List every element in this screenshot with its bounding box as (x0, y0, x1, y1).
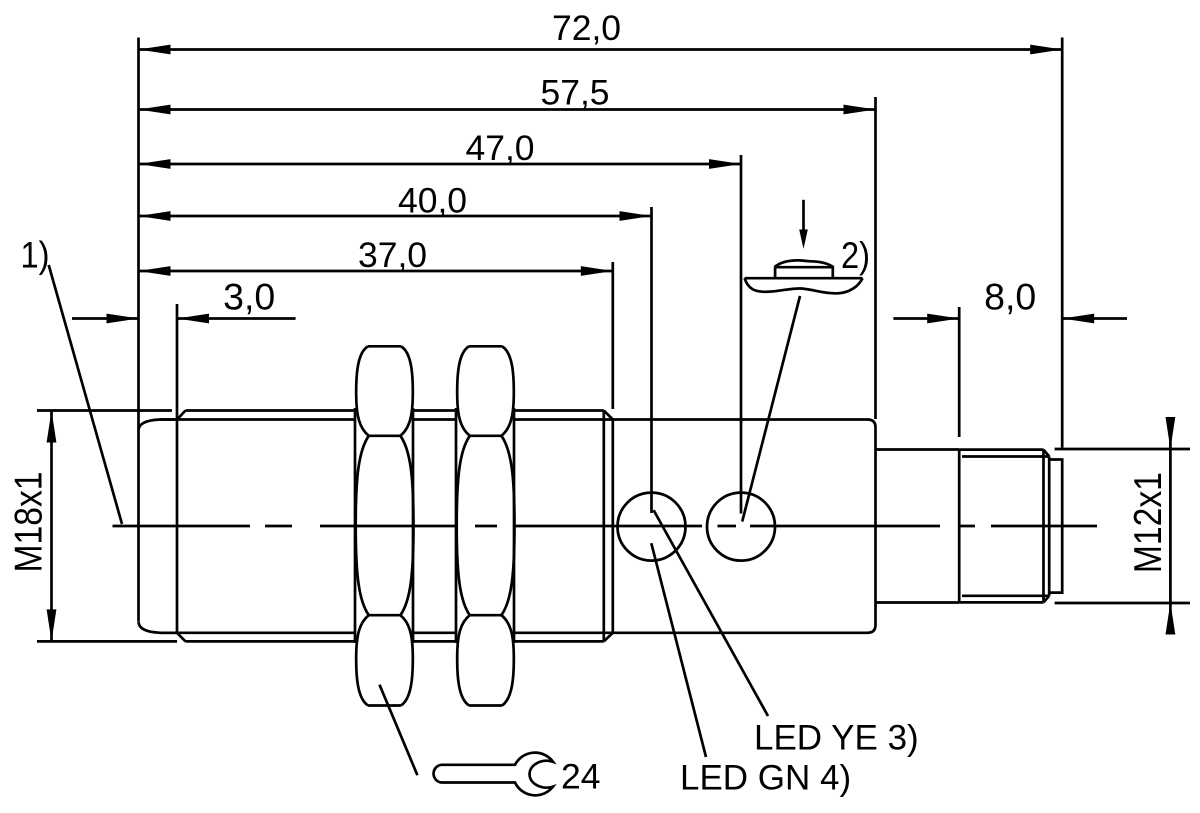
thread minor / housing top outline (160, 418, 355, 421)
extension line y=641 (M18 bottom) (37, 640, 177, 643)
M12 thread minor lines (962, 455, 1049, 458)
extension line x=1062.2 (right end) (1061, 38, 1064, 448)
hex nut 2 (456, 346, 515, 705)
arrowheads dimension 37,0 (139, 266, 171, 276)
leader LED YE (654, 510, 768, 716)
extension line x=651.5 (40.0 to LED GN circle) (650, 207, 653, 513)
svg-text:2): 2) (841, 235, 870, 276)
svg-text:8,0: 8,0 (984, 276, 1036, 318)
arrowheads dimension M18x1 (47, 411, 57, 443)
sensor tip face and chamfers (139, 411, 186, 431)
arrowheads dimension 8,0 (927, 314, 959, 324)
svg-text:47,0: 47,0 (465, 128, 534, 168)
extension line x=177 (3.0 / thread start) (176, 304, 179, 633)
extension line y=449 (M12 top) (1055, 448, 1190, 451)
LED YE window circle (707, 493, 775, 561)
LED GN window circle (618, 493, 686, 561)
svg-text:3,0: 3,0 (223, 276, 275, 318)
wrench symbol (434, 753, 553, 796)
leader 1) to sensing face (49, 265, 122, 524)
connector neck (876, 448, 960, 451)
extension line x=741 (47.0 to LED YE circle) (740, 155, 743, 514)
centerline (113, 525, 1098, 528)
thread end vertical (602, 411, 605, 642)
arrowheads dimension 57,5 (139, 105, 171, 115)
dimension line 47,0 (139, 163, 742, 166)
actuation target symbol: plate (745, 277, 863, 280)
leader wrench 24 (380, 685, 418, 776)
dimension line 37,0 (139, 270, 613, 273)
svg-text:72,0: 72,0 (552, 8, 621, 48)
svg-text:24: 24 (561, 757, 601, 797)
thread major diameter lines (186, 409, 356, 412)
dimension line 40,0 (139, 215, 652, 218)
connector tip (1049, 460, 1062, 593)
leader 2) target to LED YE circle (742, 296, 800, 522)
dimension line 72,0 (139, 48, 1063, 51)
extension line x=612.8 (37.0) (611, 262, 614, 409)
arrowheads dimension M12x1 (1166, 417, 1176, 449)
M12 thread outline (958, 450, 961, 603)
actuation target symbol: down arrow (802, 200, 805, 232)
hex nut 1 (355, 346, 414, 705)
extension line x=959.2 (8.0 left) (958, 307, 961, 437)
housing front vertical (611, 420, 614, 633)
leader LED GN (651, 543, 706, 757)
svg-text:LED YE 3): LED YE 3) (754, 719, 919, 758)
dimension line 57,5 (139, 108, 876, 111)
extension line x=875.5 (57.5) (874, 97, 877, 419)
arrowheads dimension 47,0 (139, 159, 171, 169)
arrowhead target down arrow (799, 230, 808, 249)
svg-text:LED GN 4): LED GN 4) (680, 759, 851, 798)
svg-text:57,5: 57,5 (540, 73, 609, 113)
svg-text:1): 1) (21, 235, 50, 276)
arrowheads dimension 40,0 (139, 211, 171, 221)
extension line y=602 (M12 bottom) (1055, 602, 1190, 605)
housing right rounded end (868, 420, 876, 633)
thread end chamfers (604, 411, 613, 420)
svg-text:M12x1: M12x1 (1127, 472, 1170, 573)
arrowheads dimension 72,0 (139, 45, 171, 55)
dimension line M18x1 (50, 411, 53, 642)
svg-text:M18x1: M18x1 (8, 472, 51, 573)
arrowheads dimension 3,0 (107, 314, 139, 324)
dimension line 3,0 (outside tails) (72, 317, 139, 320)
svg-text:37,0: 37,0 (358, 235, 427, 275)
extension line x=138.5 (sensing face datum) (137, 38, 140, 622)
dimension line 8,0 (outside tails) (893, 317, 959, 320)
dimension line M12x1 (1169, 418, 1172, 634)
extension line y=410.5 (M18 top) (37, 409, 172, 412)
actuation target symbol: puck (775, 267, 833, 278)
svg-text:40,0: 40,0 (398, 181, 467, 221)
